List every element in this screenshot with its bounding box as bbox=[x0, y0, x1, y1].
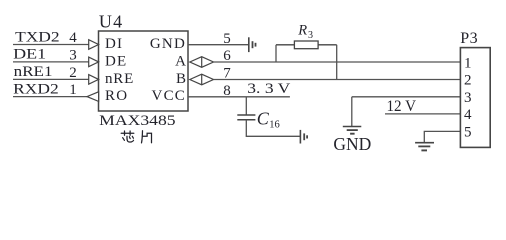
pin label GND (pin 5) bbox=[150, 36, 186, 52]
pin number 1 bbox=[69, 82, 77, 98]
op-amp U1: IC body U4 MAX3485 bbox=[99, 31, 189, 111]
pin label RO (pin 1) bbox=[105, 88, 128, 104]
wire pin 5 GND bbox=[188, 44, 249, 46]
net label nRE1 bbox=[14, 64, 53, 80]
earth ground GND bbox=[343, 127, 362, 134]
wire VCC down to C16 bbox=[245, 97, 247, 115]
pin label VCC (pin 8) bbox=[152, 88, 186, 104]
wire A: pin 6 to P3 pin 1 bbox=[214, 61, 461, 63]
wire B: pin 7 to P3 pin 2 bbox=[214, 79, 461, 81]
svg-text:DI: DI bbox=[105, 36, 123, 52]
net label RXD2 bbox=[13, 81, 59, 97]
svg-text:MAX3485: MAX3485 bbox=[99, 113, 175, 129]
wire C16 bottom to ground bbox=[246, 120, 300, 137]
connector pin number 3 bbox=[464, 90, 472, 106]
bidirectional pin diamond A (pin 6) bbox=[190, 57, 214, 68]
svg-text:1: 1 bbox=[464, 55, 472, 71]
value label R3 bbox=[297, 23, 313, 41]
net label TXD2 bbox=[15, 29, 60, 45]
wire P3 pin 5 to ground bbox=[424, 131, 460, 142]
wire 12V to P3 pin 4 bbox=[385, 113, 460, 115]
net label DE1 bbox=[13, 47, 46, 63]
bidirectional pin diamond B (pin 7) bbox=[190, 74, 214, 85]
svg-text:4: 4 bbox=[69, 30, 77, 46]
pin label nRE (pin 2) bbox=[105, 71, 134, 87]
connector pin number 2 bbox=[464, 73, 472, 89]
svg-text:B: B bbox=[176, 71, 186, 87]
svg-text:A: A bbox=[175, 54, 186, 70]
wire down to GND symbol bbox=[351, 97, 353, 127]
pin label DE (pin 3) bbox=[105, 54, 127, 70]
svg-text:GND: GND bbox=[150, 36, 186, 52]
value label C16 bbox=[257, 108, 280, 130]
svg-text:1: 1 bbox=[69, 82, 77, 98]
pin label B (pin 7) bbox=[176, 71, 186, 87]
svg-text:2: 2 bbox=[464, 73, 472, 89]
input buffer triangle pin 4 bbox=[89, 40, 99, 50]
pin number 8 bbox=[223, 83, 231, 99]
earth ground (rotated) at C16 bbox=[300, 130, 307, 144]
wire RXD2 to pin 1 bbox=[13, 96, 87, 98]
wire GND net to P3 pin 3 bbox=[352, 96, 461, 98]
svg-text:U4: U4 bbox=[99, 12, 123, 32]
svg-text:DE1: DE1 bbox=[13, 47, 46, 63]
reference designator P3 bbox=[460, 30, 478, 47]
svg-text:nRE1: nRE1 bbox=[14, 64, 53, 80]
capacitor C16 bbox=[237, 115, 255, 120]
svg-text:DE: DE bbox=[105, 54, 127, 70]
svg-text:16: 16 bbox=[269, 119, 280, 130]
wire nRE1 to pin 2 bbox=[13, 78, 89, 80]
pin number 3 bbox=[69, 48, 77, 64]
input buffer triangle pin 3 bbox=[89, 57, 99, 67]
svg-text:2: 2 bbox=[69, 65, 77, 81]
svg-text:GND: GND bbox=[333, 134, 371, 154]
svg-text:RXD2: RXD2 bbox=[13, 81, 59, 97]
svg-text:4: 4 bbox=[464, 107, 472, 123]
input buffer triangle pin 2 bbox=[89, 75, 99, 85]
reference designator U4 bbox=[99, 12, 123, 32]
connector pin number 5 bbox=[464, 124, 472, 140]
pin number 6 bbox=[223, 48, 231, 64]
svg-text:3. 3 V: 3. 3 V bbox=[247, 81, 290, 97]
wire R3 left lead down to net A bbox=[275, 45, 277, 62]
svg-text:VCC: VCC bbox=[152, 88, 186, 104]
net label GND bbox=[333, 134, 371, 154]
svg-text:3: 3 bbox=[69, 48, 77, 64]
net label 12 V bbox=[387, 98, 417, 115]
wire DE1 to pin 3 bbox=[13, 61, 89, 63]
svg-text:TXD2: TXD2 bbox=[15, 29, 60, 45]
wire pin 8 VCC to 3.3V bbox=[188, 96, 290, 98]
connector P3 body bbox=[460, 48, 490, 148]
value label 芯片 (chip) drawn as vector strokes bbox=[121, 131, 151, 143]
svg-text:P3: P3 bbox=[460, 30, 478, 47]
svg-text:C: C bbox=[257, 108, 270, 128]
pin number 4 bbox=[69, 30, 77, 46]
output buffer triangle pin 1 (points left) bbox=[87, 92, 99, 102]
pin label DI (pin 4) bbox=[105, 36, 123, 52]
earth ground at P3 pin 5 bbox=[415, 143, 434, 151]
svg-text:3: 3 bbox=[308, 30, 313, 41]
value label MAX3485 bbox=[99, 113, 175, 129]
svg-text:3: 3 bbox=[464, 90, 472, 106]
wire R3 right lead down to net B bbox=[336, 45, 338, 80]
svg-text:RO: RO bbox=[105, 88, 128, 104]
svg-text:R: R bbox=[297, 23, 307, 39]
svg-text:12 V: 12 V bbox=[387, 98, 417, 115]
svg-text:5: 5 bbox=[464, 124, 472, 140]
net label 3.3 V bbox=[247, 81, 290, 97]
pin number 2 bbox=[69, 65, 77, 81]
wire TXD2 to pin 4 bbox=[13, 44, 89, 46]
pin label A (pin 6) bbox=[175, 54, 186, 70]
connector pin number 4 bbox=[464, 107, 472, 123]
connector pin number 1 bbox=[464, 55, 472, 71]
resistor R3 (termination between A and B) bbox=[276, 41, 337, 49]
svg-text:nRE: nRE bbox=[105, 71, 134, 87]
earth ground (rotated) on pin 5 bbox=[249, 37, 256, 52]
pin number 5 bbox=[223, 31, 231, 47]
pin number 7 bbox=[223, 66, 231, 82]
